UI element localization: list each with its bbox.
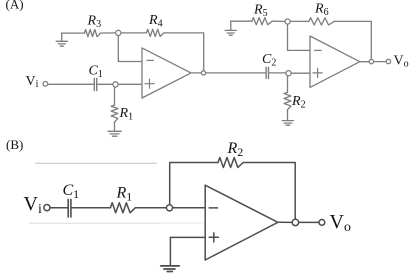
node (C1-R1/feedback junction, B) bbox=[166, 205, 172, 211]
resistor R3 bbox=[85, 30, 101, 37]
svg-text:R6: R6 bbox=[314, 2, 329, 19]
wire U1 tip to output node bbox=[191, 72, 201, 74]
wire R1 to node (B) bbox=[135, 207, 166, 209]
wire node N2 to R4 bbox=[121, 32, 146, 34]
resistor R4 bbox=[146, 29, 164, 36]
wire C1 to node N1 bbox=[98, 83, 113, 85]
wire U1 output node to C2 bbox=[206, 72, 266, 74]
Vi input terminal (A) bbox=[43, 82, 48, 87]
wire U2 tip to output node bbox=[360, 61, 369, 63]
svg-text:R5: R5 bbox=[253, 3, 268, 20]
svg-text:C2: C2 bbox=[262, 52, 276, 69]
wire node N1 to op-amp U1 + input bbox=[118, 83, 142, 85]
wire node N3 to R6 bbox=[290, 20, 309, 22]
U2 output node circle bbox=[369, 59, 373, 63]
faint artifact line under (B) input row bbox=[29, 222, 160, 224]
U3 output node circle bbox=[292, 219, 298, 225]
Vo terminal (B) bbox=[319, 220, 325, 226]
wire node N4 to op-amp U2 + input bbox=[291, 72, 310, 74]
wire ground to R5 bbox=[231, 20, 252, 22]
svg-text:C1: C1 bbox=[63, 182, 80, 201]
capacitor C2 plates bbox=[266, 67, 268, 78]
ground at R5 left bbox=[230, 21, 232, 30]
feedback wire node up and across (B) bbox=[170, 163, 218, 205]
ground below R1 bbox=[108, 130, 121, 132]
svg-text:Vo: Vo bbox=[394, 54, 409, 70]
wire Vi to C1 (B) bbox=[50, 207, 67, 209]
U1 + sign bbox=[145, 79, 154, 88]
resistor R1 (B) bbox=[110, 203, 135, 213]
wire ground to R3 bbox=[62, 32, 85, 34]
op-amp U3 bbox=[205, 185, 278, 260]
wire R3 to node N2 bbox=[101, 32, 116, 34]
wire node N3 down to U2 - input bbox=[288, 24, 311, 50]
svg-text:Vo: Vo bbox=[330, 211, 351, 235]
ground below U3 + input bbox=[161, 266, 180, 272]
U3 + sign bbox=[209, 233, 218, 242]
U1 - sign bbox=[147, 59, 153, 61]
svg-text:(A): (A) bbox=[6, 0, 24, 12]
U2 + sign bbox=[313, 68, 322, 77]
wire U2 output node to Vo terminal bbox=[374, 61, 387, 63]
svg-text:R2: R2 bbox=[291, 94, 306, 111]
ground at R3 left bbox=[61, 33, 63, 41]
wire R4 to U1 output (feedback drop) bbox=[164, 33, 204, 71]
wire R5 to node N3 bbox=[272, 20, 285, 22]
resistor R2 (stage 2, vertical) bbox=[287, 76, 289, 92]
wire C2 to node N4 bbox=[269, 72, 286, 74]
op-amp U1 bbox=[142, 48, 191, 98]
wire U3 + input to ground bbox=[170, 237, 205, 265]
node N3 (R5/R6 junction) bbox=[285, 19, 290, 24]
svg-text:R1: R1 bbox=[119, 106, 134, 123]
wire Vi to C1 (stage 1) bbox=[48, 83, 94, 85]
capacitor C1 plates (B) bbox=[68, 199, 71, 217]
svg-text:C1: C1 bbox=[89, 64, 103, 81]
svg-text:R3: R3 bbox=[87, 14, 102, 31]
svg-text:Vi: Vi bbox=[26, 74, 39, 90]
svg-text:(B): (B) bbox=[6, 137, 23, 152]
node N4 (C2/R2 junction) bbox=[286, 71, 291, 76]
resistor R5 bbox=[252, 18, 272, 25]
svg-text:R1: R1 bbox=[116, 185, 133, 204]
wire U3 tip to output node (B) bbox=[278, 221, 292, 223]
svg-text:R2: R2 bbox=[227, 140, 244, 159]
U2 - sign bbox=[315, 49, 321, 51]
feedback wire R2 to output drop (B) bbox=[243, 163, 295, 220]
wire R6 to U2 output (feedback drop) bbox=[334, 21, 371, 59]
U1 output node circle bbox=[201, 71, 205, 75]
ground below R2 bbox=[282, 120, 293, 122]
node N1 (C1/R1 junction) bbox=[113, 82, 118, 87]
faint artifact line left of (B) feedback bbox=[35, 162, 157, 164]
U3 - sign bbox=[209, 207, 217, 209]
wire node N2 down to U1 - input bbox=[118, 36, 142, 62]
capacitor C1 plates bbox=[94, 78, 96, 90]
wire node to op-amp U3 - input bbox=[173, 207, 206, 209]
resistor R2 (B) bbox=[218, 158, 243, 168]
resistor R6 bbox=[309, 18, 334, 25]
wire C1 to R1 (B) bbox=[72, 207, 111, 209]
node N2 (R3/R4 junction) bbox=[116, 30, 121, 35]
resistor R1 (vertical) bbox=[114, 87, 116, 105]
svg-text:Vi: Vi bbox=[24, 193, 42, 217]
svg-text:R4: R4 bbox=[148, 13, 163, 30]
Vi input terminal (B) bbox=[44, 205, 50, 211]
wire output node to Vo terminal (B) bbox=[299, 221, 319, 223]
Vo terminal (A) bbox=[386, 59, 390, 63]
op-amp U2 bbox=[310, 36, 360, 87]
